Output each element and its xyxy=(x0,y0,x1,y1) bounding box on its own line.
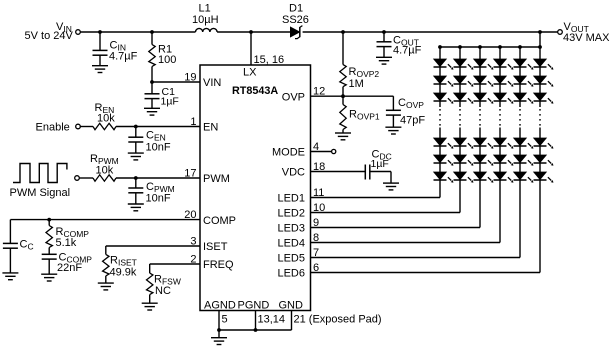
ground COVP xyxy=(385,127,401,134)
label LED2 pin name xyxy=(277,208,305,220)
wire RFSW drop xyxy=(149,264,151,273)
wire LED column 3 dotted xyxy=(479,109,481,127)
capacitor C1 xyxy=(145,94,160,99)
node junction VIN pin xyxy=(150,80,154,84)
label RT8543A xyxy=(232,85,278,97)
capacitor COVP xyxy=(386,110,401,115)
pin 3 xyxy=(190,235,196,247)
LED D61 col6 row1 xyxy=(534,59,554,70)
label MODE pin name xyxy=(272,147,305,159)
resistor ROVP1 xyxy=(340,105,346,130)
LED D43 col4 row3 xyxy=(494,93,514,104)
label CCOMP xyxy=(59,251,93,264)
label AGND pin name xyxy=(204,299,236,311)
label RFSW xyxy=(154,273,181,286)
capacitor CCOMP xyxy=(42,254,57,259)
svg-text:LED6: LED6 xyxy=(277,268,305,280)
node PWM terminal xyxy=(75,176,80,181)
label 15 16 xyxy=(254,54,285,66)
ground RISET xyxy=(98,283,114,290)
svg-text:LED3: LED3 xyxy=(277,223,305,235)
wire VDC pin xyxy=(311,171,366,173)
wire LED column 5 lower xyxy=(519,128,521,258)
resistor RISET xyxy=(103,254,109,276)
wire LED column 5 upper xyxy=(519,47,521,107)
LED D11 col1 row1 xyxy=(434,59,454,70)
LED D21 col2 row1 xyxy=(454,59,474,70)
label 10nF CPWM xyxy=(146,192,171,204)
wire CIN bottom xyxy=(99,55,101,65)
node junction OVP xyxy=(341,94,345,98)
wire RPWM to PWM pin xyxy=(116,177,200,179)
LED D15 col1 row5 xyxy=(434,155,454,166)
capacitor CC xyxy=(3,243,18,248)
node junction LED bus col4 xyxy=(498,45,502,49)
label 1uF C1 xyxy=(161,96,179,108)
wire GND pin 21 xyxy=(291,311,293,331)
label 10uH xyxy=(192,14,219,26)
wire LED5 return xyxy=(311,257,521,259)
label LED5 pin name xyxy=(277,253,305,265)
label VIN xyxy=(56,21,72,34)
LED D35 col3 row5 xyxy=(474,155,494,166)
capacitor COUT xyxy=(377,42,392,47)
label Enable xyxy=(36,122,70,134)
pin 8 xyxy=(313,232,319,244)
wire COUT bottom xyxy=(383,47,385,58)
wire LED column 1 dotted xyxy=(439,109,441,127)
label FREQ pin name xyxy=(203,259,234,271)
label LED4 pin name xyxy=(277,238,305,250)
node junction LED bus col2 xyxy=(458,45,462,49)
label CPWM xyxy=(146,181,175,194)
svg-text:EN: EN xyxy=(203,122,218,134)
svg-text:PGND: PGND xyxy=(238,299,270,311)
wire AGND pin 5 xyxy=(218,311,220,331)
wire R1 to C1 xyxy=(151,67,153,95)
PWM square wave symbol xyxy=(13,164,67,183)
wire RCOMP to CCOMP xyxy=(48,248,50,255)
capacitor CDC xyxy=(365,165,370,180)
LED D12 col1 row2 xyxy=(434,76,454,87)
node junction PGND xyxy=(254,328,258,332)
wire D1 to VOUT xyxy=(303,31,558,33)
svg-text:LED5: LED5 xyxy=(277,253,305,265)
svg-text:LED4: LED4 xyxy=(277,238,305,250)
svg-text:GND: GND xyxy=(279,299,304,311)
label L1 xyxy=(199,2,211,14)
wire CIN top xyxy=(99,32,101,50)
label 4.7uF COUT xyxy=(393,45,422,57)
wire LED column 4 lower xyxy=(499,128,501,243)
resistor RCOMP xyxy=(46,226,52,248)
wire LED column 3 lower xyxy=(479,128,481,228)
svg-text:Enable: Enable xyxy=(36,122,70,134)
wire LED column 6 lower xyxy=(539,128,541,273)
LED D22 col2 row2 xyxy=(454,76,474,87)
LED D62 col6 row2 xyxy=(534,76,554,87)
LED D41 col4 row1 xyxy=(494,59,514,70)
wire CDC to ground xyxy=(370,172,391,184)
wire LED column 2 upper xyxy=(459,47,461,107)
wire LED column 5 dotted xyxy=(519,109,521,127)
wire CPWM bottom xyxy=(135,193,137,204)
pin 13 14 xyxy=(258,314,286,326)
wire pin19 to IC xyxy=(152,81,200,83)
wire ROVP2 bottom xyxy=(342,87,344,97)
label 1M xyxy=(349,78,364,90)
svg-text:1M: 1M xyxy=(349,78,364,90)
wire AGND to ground xyxy=(218,330,220,338)
pin 11 xyxy=(313,187,324,199)
svg-text:100: 100 xyxy=(158,54,176,66)
svg-text:LX: LX xyxy=(243,66,257,78)
wire ROVP1 top xyxy=(342,96,344,104)
wire CC drop xyxy=(9,220,11,244)
resistor RFSW xyxy=(147,273,153,295)
ground C1 xyxy=(144,108,160,115)
label LX pin name xyxy=(243,66,257,78)
svg-text:L1: L1 xyxy=(199,2,211,14)
svg-text:VIN: VIN xyxy=(203,77,221,89)
ground CPWM xyxy=(128,204,144,211)
wire COMP pin xyxy=(10,219,200,221)
wire PWM to RPWM xyxy=(79,177,93,179)
LED D33 col3 row3 xyxy=(474,93,494,104)
LED D42 col4 row2 xyxy=(494,76,514,87)
LED D34 col3 row4 xyxy=(474,138,494,149)
node junction COUT xyxy=(382,30,386,34)
label CEN xyxy=(146,130,166,143)
wire LED top bus xyxy=(440,46,540,48)
node junction LED bus col5 xyxy=(518,45,522,49)
wire LED column 4 upper xyxy=(499,47,501,107)
node VOUT output terminal xyxy=(558,30,563,35)
resistor R1 xyxy=(149,45,155,67)
pin 18 xyxy=(313,161,325,173)
label R1 xyxy=(158,43,172,55)
svg-text:22nF: 22nF xyxy=(57,262,82,274)
ground CIN xyxy=(92,66,108,73)
label CIN xyxy=(110,40,126,53)
label LED1 pin name xyxy=(277,193,305,205)
svg-text:FREQ: FREQ xyxy=(203,259,234,271)
wire ROVP2 top xyxy=(342,32,344,65)
wire CEN top xyxy=(135,127,137,138)
wire C1 bottom xyxy=(151,99,153,109)
wire RISET bottom xyxy=(105,276,107,283)
label CDC xyxy=(372,148,392,161)
label 10k RPWM xyxy=(96,164,114,176)
LED D36 col3 row6 xyxy=(474,172,494,183)
resistor ROVP2 xyxy=(340,65,346,87)
label COMP pin name xyxy=(203,215,236,227)
LED D64 col6 row4 xyxy=(534,138,554,149)
LED D31 col3 row1 xyxy=(474,59,494,70)
wire LED column 4 dotted xyxy=(499,109,501,127)
svg-text:1µF: 1µF xyxy=(161,96,179,108)
svg-text:5.1k: 5.1k xyxy=(56,237,77,249)
wire COVP bottom xyxy=(392,115,394,127)
svg-text:VDC: VDC xyxy=(282,167,305,179)
svg-text:19: 19 xyxy=(184,71,196,83)
LED D53 col5 row3 xyxy=(514,93,534,104)
label COUT xyxy=(393,35,419,48)
node junction CIN xyxy=(98,30,102,34)
svg-text:4.7µF: 4.7µF xyxy=(393,45,422,57)
diode D1 xyxy=(291,26,303,39)
label RPWM xyxy=(90,153,119,166)
wire REN to EN pin xyxy=(116,126,200,128)
ground COUT xyxy=(376,57,392,64)
wire R1 top xyxy=(151,32,153,45)
LED D44 col4 row4 xyxy=(494,138,514,149)
wire ROVP1 bottom xyxy=(342,130,344,134)
label 10k REN xyxy=(97,112,115,124)
label D1 xyxy=(289,2,303,14)
wire L1 to diode D1 xyxy=(217,31,290,33)
wire LED column 1 upper xyxy=(439,47,441,107)
wire LED1 return xyxy=(311,197,441,199)
label LED3 pin name xyxy=(277,223,305,235)
inductor L1 xyxy=(196,28,218,32)
capacitor CIN xyxy=(93,50,108,55)
LED D45 col4 row5 xyxy=(494,155,514,166)
label 22nF xyxy=(57,262,82,274)
node junction RCOMP xyxy=(47,218,51,222)
label SS26 xyxy=(282,14,309,26)
wire CCOMP bottom xyxy=(48,259,50,274)
pin 4 xyxy=(313,141,319,153)
label VDC pin name xyxy=(282,167,305,179)
wire COUT top xyxy=(383,32,385,42)
svg-text:10k: 10k xyxy=(97,112,115,124)
label ROVP2 xyxy=(349,66,380,79)
wire Enable to REN xyxy=(80,126,93,128)
label PWM pin name xyxy=(203,173,230,185)
svg-text:D1: D1 xyxy=(289,2,303,14)
label VIN pin name xyxy=(203,77,221,89)
label RCOMP xyxy=(56,226,90,239)
wire RFSW bottom xyxy=(149,295,151,304)
node Enable terminal xyxy=(76,124,81,129)
svg-text:10k: 10k xyxy=(96,164,114,176)
svg-text:ISET: ISET xyxy=(203,241,228,253)
label CC xyxy=(20,239,34,252)
svg-text:PWM: PWM xyxy=(203,173,230,185)
pin 17 xyxy=(184,167,196,179)
wire CEN bottom xyxy=(135,142,137,153)
pin 1 xyxy=(190,116,196,128)
pin 20 xyxy=(184,209,196,221)
label PGND pin name xyxy=(238,299,270,311)
pin 19 xyxy=(184,71,196,83)
label 47pF xyxy=(400,115,425,127)
svg-text:10µH: 10µH xyxy=(192,14,219,26)
LED D16 col1 row6 xyxy=(434,172,454,183)
wire CC bottom xyxy=(9,248,11,273)
ground CC xyxy=(2,273,18,280)
ground main xyxy=(211,338,227,345)
wire LED3 return xyxy=(311,227,481,229)
LED D32 col3 row2 xyxy=(474,76,494,87)
label NC xyxy=(155,285,171,297)
svg-text:OVP: OVP xyxy=(282,91,305,103)
label RISET xyxy=(110,255,137,268)
svg-text:RT8543A: RT8543A xyxy=(232,85,278,97)
svg-text:4.7µF: 4.7µF xyxy=(109,51,138,63)
LED D63 col6 row3 xyxy=(534,93,554,104)
label 10nF CEN xyxy=(146,141,171,153)
wire ground bus xyxy=(219,329,292,331)
LED D51 col5 row1 xyxy=(514,59,534,70)
LED D46 col4 row6 xyxy=(494,172,514,183)
label 49.9k xyxy=(110,266,137,278)
wire ISET pin xyxy=(106,245,200,247)
svg-text:SS26: SS26 xyxy=(282,14,309,26)
svg-text:1µF: 1µF xyxy=(371,158,389,170)
LED D26 col2 row6 xyxy=(454,172,474,183)
svg-text:47pF: 47pF xyxy=(400,115,425,127)
label ISET pin name xyxy=(203,241,228,253)
svg-text:10nF: 10nF xyxy=(146,192,171,204)
svg-text:NC: NC xyxy=(155,285,171,297)
label PWM Signal xyxy=(10,187,71,199)
svg-text:15, 16: 15, 16 xyxy=(254,54,285,66)
pin 9 xyxy=(313,217,319,229)
LED D55 col5 row5 xyxy=(514,155,534,166)
pin 12 xyxy=(313,86,325,98)
wire LED column 3 upper xyxy=(479,47,481,107)
svg-text:5: 5 xyxy=(222,314,228,326)
svg-text:COMP: COMP xyxy=(203,215,236,227)
label EN pin name xyxy=(203,122,218,134)
LED D65 col6 row5 xyxy=(534,155,554,166)
ground CCOMP xyxy=(41,274,57,281)
LED D56 col5 row6 xyxy=(514,172,534,183)
label ROVP1 xyxy=(349,109,380,122)
resistor REN xyxy=(93,123,116,129)
node junction LED bus col3 xyxy=(478,45,482,49)
LED D24 col2 row4 xyxy=(454,138,474,149)
wire OVP pin xyxy=(311,95,394,97)
op-amp U1 RT8543A box xyxy=(200,65,311,311)
wire LED column 6 upper xyxy=(539,47,541,107)
label C1 xyxy=(162,86,176,98)
ground CDC xyxy=(383,183,399,190)
pin 10 xyxy=(313,202,325,214)
wire LX pin xyxy=(250,32,252,65)
node junction CPWM xyxy=(134,176,138,180)
node junction LED bus col1 xyxy=(438,45,442,49)
label 5V to 24V xyxy=(25,30,74,42)
wire LED column 6 dotted xyxy=(539,109,541,127)
node VIN input terminal xyxy=(76,30,81,35)
label 1uF CDC xyxy=(371,158,389,170)
LED D54 col5 row4 xyxy=(514,138,534,149)
svg-text:43V MAX: 43V MAX xyxy=(563,32,610,44)
wire MODE pin xyxy=(311,151,332,153)
wire PGND pin 13 14 xyxy=(255,311,257,331)
capacitor CEN xyxy=(128,137,143,142)
wire LED4 return xyxy=(311,242,501,244)
LED D25 col2 row5 xyxy=(454,155,474,166)
svg-text:49.9k: 49.9k xyxy=(110,266,137,278)
LED D13 col1 row3 xyxy=(434,93,454,104)
svg-text:13,14: 13,14 xyxy=(258,314,286,326)
wire LED column 1 lower xyxy=(439,128,441,198)
label VOUT xyxy=(564,21,589,34)
ground CEN xyxy=(128,153,144,160)
wire RISET drop xyxy=(105,246,107,254)
pin 5 xyxy=(222,314,228,326)
node junction AGND xyxy=(217,328,221,332)
svg-text:MODE: MODE xyxy=(272,147,305,159)
wire top rail VIN to L1 xyxy=(80,31,195,33)
label 4.7uF CIN xyxy=(109,51,138,63)
svg-text:5V to 24V: 5V to 24V xyxy=(25,30,74,42)
svg-text:LED1: LED1 xyxy=(277,193,305,205)
pin 2 xyxy=(190,253,196,265)
pin 7 xyxy=(313,247,319,259)
wire LED column 2 lower xyxy=(459,128,461,213)
wire COVP drop xyxy=(392,96,394,110)
wire FREQ pin xyxy=(150,263,200,265)
node junction LED feed xyxy=(538,30,542,34)
node junction ROVP2 top xyxy=(341,30,345,34)
capacitor CPWM xyxy=(128,188,143,193)
pin 6 xyxy=(313,262,319,274)
svg-text:10nF: 10nF xyxy=(146,141,171,153)
wire LED2 return xyxy=(311,212,461,214)
svg-text:AGND: AGND xyxy=(204,299,236,311)
node junction CEN xyxy=(134,125,138,129)
ground RFSW xyxy=(142,303,158,310)
ground ROVP1 xyxy=(335,133,351,140)
LED D14 col1 row4 xyxy=(434,138,454,149)
label 43V MAX xyxy=(563,32,610,44)
LED D23 col2 row3 xyxy=(454,93,474,104)
wire VOUT rail to LED bus xyxy=(539,32,541,47)
label 5.1k xyxy=(56,237,77,249)
node MODE terminal xyxy=(332,149,336,153)
wire CPWM top xyxy=(135,178,137,188)
node junction LED bus col6 xyxy=(538,45,542,49)
resistor RPWM xyxy=(93,175,116,181)
pin 21 exposed pad xyxy=(294,314,382,326)
wire RCOMP top xyxy=(48,220,50,226)
label 100 xyxy=(158,54,176,66)
node junction R1 top xyxy=(150,30,154,34)
svg-text:21 (Exposed Pad): 21 (Exposed Pad) xyxy=(294,314,382,326)
label OVP pin name xyxy=(282,91,305,103)
LED D52 col5 row2 xyxy=(514,76,534,87)
node junction LX xyxy=(249,30,253,34)
label COVP xyxy=(398,97,424,110)
svg-text:PWM Signal: PWM Signal xyxy=(10,187,71,199)
LED D66 col6 row6 xyxy=(534,172,554,183)
label LED6 pin name xyxy=(277,268,305,280)
svg-text:LED2: LED2 xyxy=(277,208,305,220)
wire LED6 return xyxy=(311,272,541,274)
label REN xyxy=(95,102,115,115)
label GND pin name xyxy=(279,299,304,311)
wire LED column 2 dotted xyxy=(459,109,461,127)
